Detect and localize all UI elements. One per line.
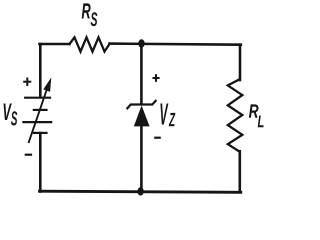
minus sign (zener) [154, 137, 161, 139]
label VZ [160, 104, 168, 125]
resistor R_S [70, 37, 110, 51]
wire left vertical lower [39, 133, 42, 192]
label RS [82, 3, 91, 18]
label VS [4, 104, 12, 121]
minus sign (source) [25, 154, 32, 156]
source VS battery plates [22, 98, 52, 133]
resistor R_L [228, 80, 243, 152]
wire bottom horizontal [40, 191, 241, 192]
wire top-left segment [40, 43, 70, 46]
wire right vertical upper [239, 45, 242, 80]
plus sign (zener) [153, 74, 160, 82]
wire middle vertical lower [140, 126, 143, 192]
node bottom junction [137, 187, 143, 195]
variable-source arrow [29, 77, 52, 143]
wire left vertical upper [39, 44, 42, 97]
plus sign (source) [23, 78, 31, 87]
label RL [249, 104, 259, 117]
zener diode VZ cathode bar [127, 100, 157, 109]
wire middle vertical upper [140, 44, 143, 104]
wire top-right segment [110, 44, 241, 45]
node top junction [138, 39, 144, 47]
wire right vertical lower [239, 151, 242, 191]
zener diode VZ anode triangle [134, 106, 150, 127]
